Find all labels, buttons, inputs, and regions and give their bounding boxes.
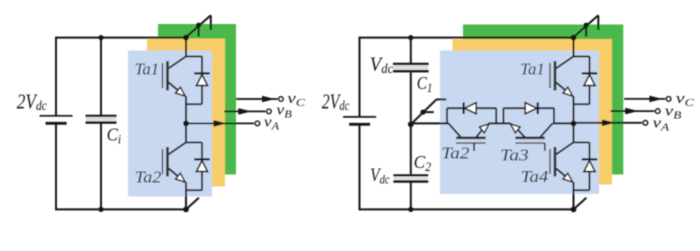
svg-text:Ta4: Ta4 (521, 167, 549, 186)
svg-text:Ta1: Ta1 (520, 59, 545, 78)
svg-text:Ta2: Ta2 (135, 168, 162, 187)
svg-text:Ta2: Ta2 (441, 143, 469, 162)
svg-text:Ta3: Ta3 (500, 146, 529, 165)
svg-text:Ta1: Ta1 (135, 59, 160, 78)
